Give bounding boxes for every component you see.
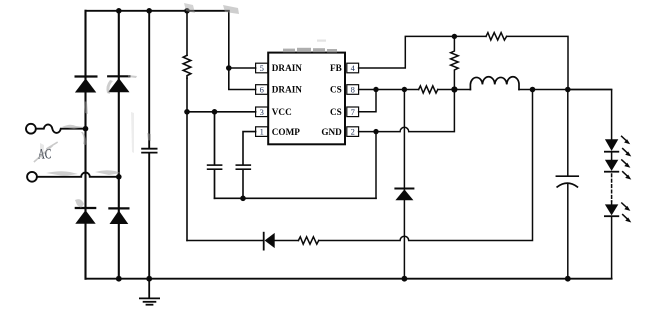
svg-text:2: 2 [351,127,355,137]
wire: output cap leads [567,90,569,279]
junction dot R1/VCC row [184,109,190,115]
wire: freewheel branch vertical [403,90,405,279]
wire: left bridge branch vertical [84,11,86,279]
AC terminal 2 [27,172,37,182]
junction dot FB line / R3 [452,34,457,39]
diode D2 bridge top-right [108,76,129,92]
pin 2 box [347,127,359,137]
wire: top positive rail [86,10,229,12]
svg-text:1: 1 [260,127,264,137]
pin 8 box [347,85,359,95]
junction dot CS/snubber vertical [530,87,536,93]
svg-text:6: 6 [260,85,264,95]
wire: AC line 1 with fuse squiggle [36,125,86,133]
inductor L1 [470,77,519,90]
svg-text:DRAIN: DRAIN [272,63,302,73]
LED D7 [605,139,618,151]
junction dot bottom rail/right branch [116,276,122,282]
ground symbol [140,279,159,305]
diode D6 snubber row pointing left [264,233,275,250]
LED light arrows D7 [622,136,632,156]
wire: CS row [359,89,612,91]
grey retouch smudges (scan artifacts) [40,3,239,208]
junction dot rail/startup resistor [184,8,190,14]
diode D3 bridge bottom-left [75,208,95,224]
junction dot R3/CS row [451,86,457,92]
pin 5 box [256,63,268,73]
junction dot output cap/bottom rail [565,276,571,282]
junction dot CS/output cap [565,87,571,93]
junction dot GND row / return drop [373,129,378,134]
wire: C3 top lead and COMP pin wire [243,132,256,199]
wire: startup branch lower to VCC and snubber row [186,78,188,240]
LED light arrows D9 [622,203,632,223]
diode D5 freewheel [395,189,413,201]
junction dot AC1 / left branch [83,126,89,132]
svg-text:GND: GND [321,127,342,137]
wire: CS pin7 link [359,90,376,112]
erased part number smudge above IC [283,40,337,53]
svg-text:DRAIN: DRAIN [272,85,302,95]
junction dot CS/freewheel [402,87,407,92]
capacitor C4 output electrolytic [556,176,578,187]
wire: FB loop top [359,36,568,89]
wire: VCC row [187,111,256,113]
svg-text:5: 5 [260,63,264,73]
svg-text:4: 4 [351,63,356,73]
pin 6 box [256,85,268,95]
svg-text:CS: CS [330,107,342,117]
wire: C2 leads [214,112,216,199]
wire: input cap branch [148,11,150,279]
LED light arrows D8 [622,160,632,180]
resistor R4 CS row [419,86,438,93]
junction dot rail/right branch [116,8,122,14]
wire: snubber row [187,90,533,241]
resistor R5 snubber row [298,237,318,244]
junction dot C3/return row [240,196,246,202]
wire: LED1-LED2 link [611,152,613,160]
junction dot AC2 / right branch [116,174,122,180]
capacitor C2 VCC [208,165,222,169]
wire: LED branch bottom [611,201,613,279]
svg-text:FB: FB [330,63,342,73]
svg-text:CS: CS [330,85,342,95]
pin 4 box [347,63,359,73]
wire: bottom rail [86,278,612,280]
resistor R2 FB top [486,33,507,41]
wire: drain tie branch [229,11,256,90]
diode D1 bridge top-left [75,77,97,93]
svg-text:3: 3 [260,107,264,117]
op-amp U1 controller IC body [268,53,345,145]
capacitor C1 input filter [142,149,157,153]
wire: right bridge branch vertical [118,11,120,279]
resistor R3 vertical with leads [451,36,459,89]
LED D8 [605,160,618,172]
junction dot freewheel/bottom rail [402,276,408,282]
wire: startup branch upper [186,11,188,56]
AC terminal 1 [26,124,36,134]
junction dot CS/pin7 [373,87,378,92]
svg-text:7: 7 [351,107,355,117]
capacitor C3 COMP [236,165,250,169]
pin 3 box [256,107,268,117]
wire: dashed continuation of LED string [611,174,613,201]
resistor R1 startup vertical [183,55,191,78]
LED D9 [605,204,618,216]
wire: AC line 2 hops over left branch [37,172,119,176]
pin 1 box [256,127,268,137]
junction dot drain tie [226,65,232,71]
junction dot VCC/C2 [212,109,218,115]
diode D4 bridge bottom-right [109,208,128,224]
grey slash smudge across AC label [35,143,58,162]
junction dot rail/cap branch [146,8,152,14]
wire: GND return drop [375,132,377,199]
junction dot bottom rail/ground [146,276,152,282]
wire: comp/gnd return row [215,197,377,199]
wire: LED branch top [568,90,612,140]
pin 7 box [347,107,359,117]
svg-text:VCC: VCC [272,107,292,117]
wire: GND row hops freewheel branch then up to CS [359,90,455,132]
svg-text:COMP: COMP [272,127,300,137]
svg-text:8: 8 [351,85,355,95]
